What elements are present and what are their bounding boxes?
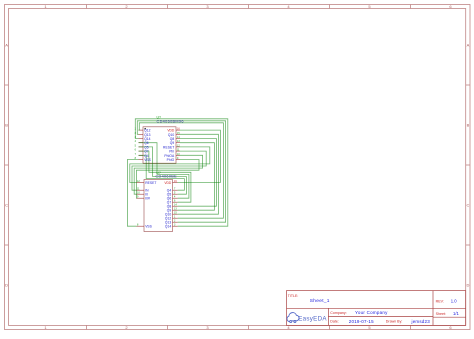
wire Q5 U1.5 to U2.Q5 <box>139 147 187 194</box>
svg-text:1/1: 1/1 <box>453 311 459 316</box>
svg-text:B: B <box>5 122 8 127</box>
svg-text:B: B <box>467 122 470 127</box>
svg-text:VDD: VDD <box>164 181 172 185</box>
svg-text:D: D <box>5 282 8 287</box>
wire Q9 U1.13 to U2.Q9 <box>178 143 215 211</box>
wire Q13 U1.2 to U2.Q13 <box>137 121 225 222</box>
wire Q7 U1.6 to U2.Q7 <box>139 151 191 202</box>
U2 pins (left RESET/clock/VSS, right VDD/Q4-Q14) <box>137 183 178 227</box>
svg-text:Drawn By:: Drawn By: <box>386 320 403 324</box>
svg-text:jemsd23: jemsd23 <box>411 319 431 324</box>
wire VSS U1.8 to U2.VSS <box>127 160 138 227</box>
svg-text:VSS: VSS <box>145 225 152 229</box>
svg-text:I0#: I0# <box>145 197 150 201</box>
svg-text:A: A <box>467 42 470 47</box>
svg-text:C: C <box>466 202 469 207</box>
wire Q10 U1.15 to U2.Q10 <box>178 134 219 214</box>
wire PHI U1.11 to U2.PHI_I <box>132 151 206 190</box>
U1 pins (left 1-8, right 16-9) <box>139 130 181 159</box>
svg-text:TITLE:: TITLE: <box>288 294 299 298</box>
wire Q6 U1.4 to U2.Q6 <box>139 143 189 199</box>
svg-text:1.0: 1.0 <box>451 299 457 304</box>
wire VDD U1.16 to U2.VDD <box>178 130 221 182</box>
U2 pin numbers <box>137 180 177 227</box>
svg-text:PhIO: PhIO <box>167 158 175 162</box>
svg-text:Company:: Company: <box>330 311 346 315</box>
U2 pin names <box>145 181 171 229</box>
svg-text:EasyEDA: EasyEDA <box>298 316 327 323</box>
svg-text:REV:: REV: <box>436 300 444 304</box>
EasyEDA logo <box>287 313 327 323</box>
wire RESET U1.12 to U2.RESET <box>130 147 210 183</box>
svg-text:D: D <box>466 282 469 287</box>
wire Q8 U1.14 to U2.Q8 <box>178 139 217 207</box>
wire Q12 U1.1 to U2.Q12 <box>139 123 224 218</box>
svg-text:VSS: VSS <box>144 158 151 162</box>
U1 pin numbers 1-16 <box>135 128 181 160</box>
svg-text:Q14: Q14 <box>165 225 171 229</box>
svg-text:VDD: VDD <box>167 129 175 133</box>
svg-text:RESET: RESET <box>145 181 156 185</box>
svg-text:Sheet:: Sheet: <box>436 312 446 316</box>
svg-text:2019-07-15: 2019-07-15 <box>349 319 374 324</box>
svg-text:C: C <box>5 202 8 207</box>
wire Q4 U1.7 to U2.Q4 <box>139 155 185 190</box>
wire Q14 U1.3 to U2.Q14 <box>135 119 228 226</box>
svg-text:Your Company: Your Company <box>355 310 388 315</box>
svg-text:Sheet_1: Sheet_1 <box>310 298 330 304</box>
svg-text:A: A <box>5 42 8 47</box>
IC U2 CD4060BE body <box>144 180 173 232</box>
wire PHI0A U1.10 to U2.PHI_O <box>134 155 202 194</box>
svg-text:CD4060BE: CD4060BE <box>156 175 178 179</box>
title block <box>287 291 466 326</box>
IC U1 CD4060BM96 body <box>143 127 176 163</box>
svg-text:CD4060BM96: CD4060BM96 <box>157 120 184 124</box>
U1 pin names <box>144 129 175 162</box>
svg-text:Date:: Date: <box>330 320 339 324</box>
wire PHI0 U1.9 to U2.PHI_Ob <box>136 160 199 199</box>
